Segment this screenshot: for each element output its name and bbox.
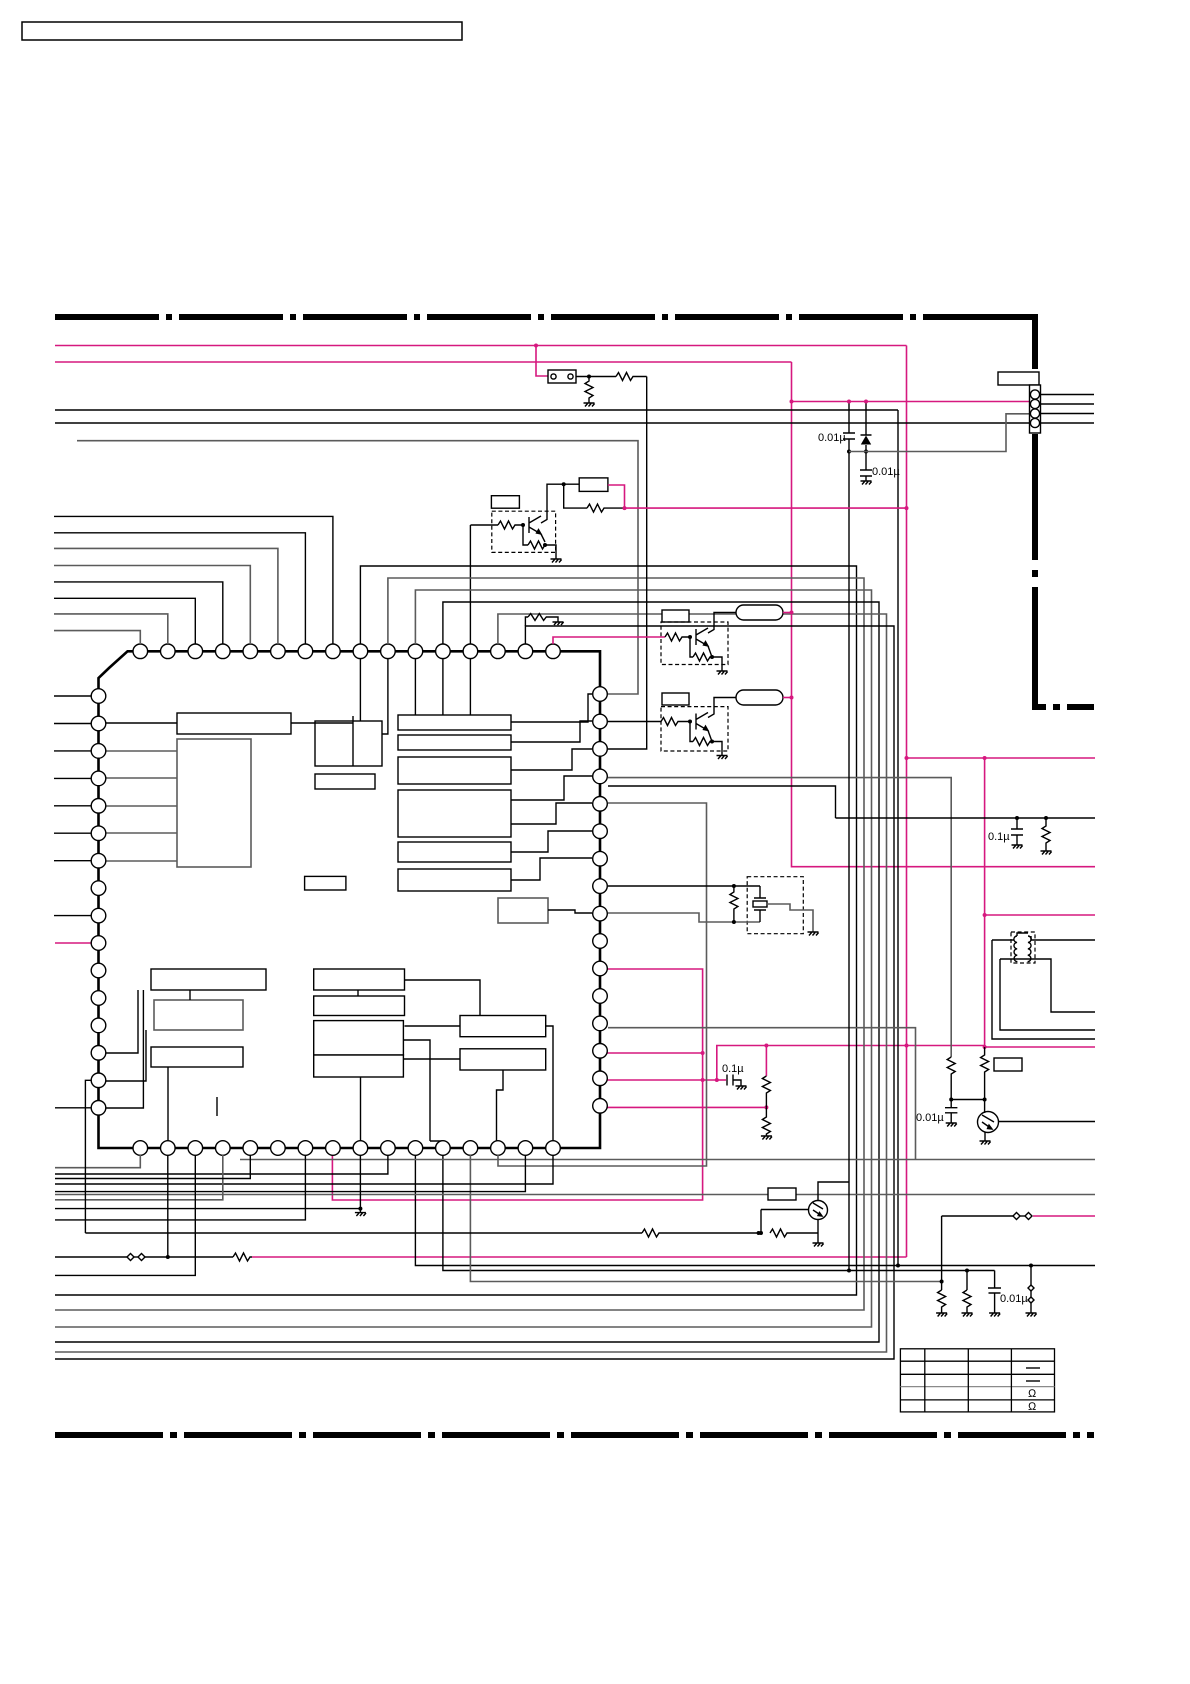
resistor RX vertical [730, 886, 738, 922]
transistor Q4 mid label box [768, 1188, 796, 1200]
connector CN pin3 [1030, 409, 1039, 418]
wire right pin2 to cluster3 base [608, 721, 661, 723]
resistor R-top small with ground [525, 617, 528, 626]
wire pin15T to bus [55, 626, 894, 1359]
wire rectS to rectU [403, 1058, 460, 1060]
wire rectR to rectT [405, 1025, 461, 1027]
wire diamond rail y1257 left [55, 1256, 127, 1258]
node M1-drop junction [534, 344, 538, 348]
wire CN pin3 out [1040, 413, 1094, 415]
node trunk y508 [905, 506, 909, 510]
svg-text:0.01µ: 0.01µ [872, 466, 900, 478]
ground G-Rm2 [761, 1136, 772, 1140]
block Q1 out box [579, 478, 608, 492]
block rect F [398, 735, 511, 750]
wire diamond rail to resistor [145, 1256, 233, 1258]
block rect L [498, 898, 548, 923]
diode D1 [861, 402, 872, 471]
wire magenta y1046 crossbar [717, 1046, 985, 1081]
wire Q1 emitter to ground [541, 534, 556, 559]
node magenta 1080b [715, 1078, 719, 1082]
node magenta 1080a [701, 1078, 705, 1082]
wire left pin16 lead [55, 1107, 91, 1109]
wire fan8 to top pin1 [54, 631, 140, 644]
wire pin3B lead y1275.4 [55, 1155, 195, 1275]
block rect H [398, 790, 511, 837]
wire pin10T into IC [382, 658, 388, 734]
connector diamond d1 [127, 1254, 134, 1261]
connector CN right label box [998, 372, 1039, 385]
block rect G [398, 757, 511, 784]
wire CN pin2 out [1040, 403, 1094, 405]
wire rectH2 to right pin5 [511, 803, 592, 824]
wire crystal out [766, 904, 813, 932]
wire fan5 to top pin4 [54, 582, 223, 644]
block rect C [315, 721, 382, 766]
wire R5-R6 tie [951, 1099, 984, 1101]
node crystal bottom left [732, 920, 736, 924]
transformer T1 dashed box [1011, 932, 1035, 963]
wire gray pin5R loop to pin14B [498, 803, 707, 1166]
svg-text:0.01µ: 0.01µ [916, 1112, 944, 1124]
crystal X1 symbol plates [754, 886, 766, 922]
transistor Q5 circle [978, 1112, 999, 1133]
node y1233 x758 [757, 1231, 761, 1235]
wire y1233 rail [85, 1232, 642, 1234]
block R6 label box [994, 1058, 1022, 1071]
ground G-pin9b hatch [355, 1213, 366, 1216]
wire Q1 base lead [471, 524, 499, 526]
wire pin11T into IC [414, 658, 416, 715]
resistor R1 vertical [585, 377, 593, 401]
bottom dash-dot thick border [55, 1432, 1094, 1438]
resistor R-m1 at x766 [762, 1076, 770, 1107]
wire pin15L staircase to rectO [106, 1030, 146, 1081]
capacitor C4 0.1u [1011, 818, 1023, 845]
node C1 top [847, 400, 851, 404]
right thick border vertical [1032, 314, 1038, 369]
ground G-Q3 [717, 756, 728, 760]
wire Q2 emitter R [690, 637, 693, 657]
ground G-R1 hatch [584, 403, 595, 407]
wire diamond rail mid [134, 1256, 138, 1258]
wire rectJ to right pin7 [511, 858, 592, 880]
wire rectH to right pin4 [511, 776, 592, 800]
connector diamond d6 [1028, 1297, 1034, 1303]
wire magenta y508 to trunk [625, 507, 907, 509]
svg-text:Ω: Ω [1028, 1388, 1037, 1400]
ground G-X1 [808, 932, 819, 936]
wire M2 magenta second rail [55, 361, 792, 363]
ground G-C6 [989, 1313, 1000, 1317]
wire pin2B drop to diamond rail [167, 1155, 169, 1257]
resistor R-Q4 [770, 1229, 818, 1237]
wire pin16B lead y1184 [55, 1155, 553, 1184]
resistor R5 at x951 [947, 1057, 955, 1100]
wire d3-d4 [1020, 1215, 1025, 1217]
transistor cluster Q2 dashed box [661, 622, 728, 665]
wire left pin7 lead [54, 860, 91, 862]
wire y1216 rail [942, 1215, 1013, 1217]
IC left pin column [91, 689, 106, 1115]
block rect T [460, 1016, 546, 1037]
node magenta 1107 [764, 1105, 768, 1109]
wire node rail y818 [836, 817, 1096, 819]
wire rectS to bottom pin9 via x360 [360, 1077, 362, 1141]
block rect U [460, 1049, 546, 1070]
ground G-d6 [1026, 1313, 1037, 1317]
node trunk y758 [905, 756, 909, 760]
node magenta x792 T [790, 400, 794, 404]
wire rectG to right pin3 [511, 749, 592, 770]
block rect R [314, 1021, 404, 1055]
wire magenta vertical x984.6 [984, 758, 986, 1047]
transformer T1 right coil [1028, 936, 1032, 962]
wire gray full rail y1194.5 [55, 1194, 1095, 1196]
wire x967 drop [966, 1271, 968, 1291]
block rect B [177, 739, 251, 867]
resistor R6 at x985 [981, 1047, 989, 1100]
wire fan4 to top pin5 [54, 566, 250, 645]
wire magenta diamond line y1216 [1033, 1215, 1095, 1217]
connector diamond d2 [138, 1254, 145, 1261]
wire rectN bottom [357, 990, 359, 996]
wire magenta right rail y758 [907, 757, 1096, 759]
wire Q1 feedback drop [564, 484, 587, 508]
block rect P [151, 1047, 243, 1067]
node Q3 emitter [710, 740, 714, 744]
wire left pin2 lead [54, 723, 91, 725]
wire magenta C3 left join [717, 1079, 726, 1081]
node D1 top [864, 400, 868, 404]
wire gray D1 node to connector pin3 [849, 414, 1030, 452]
wire left pin6 lead [54, 832, 91, 834]
block rect Q [314, 996, 405, 1016]
resistor Q2 base R [665, 633, 690, 641]
wire pin14L staircase to rectM [106, 990, 138, 1053]
wire rectM to rectO stub [189, 990, 191, 1000]
node pill2 stub [790, 696, 794, 700]
wire rectI to right pin6 [511, 831, 592, 852]
transistor cluster Q3 label box [662, 693, 689, 705]
wire magenta bottom drop from pin8b [332, 1155, 340, 1200]
wire rectU to bottom pin14 [497, 1070, 504, 1141]
ground G-C2 [861, 481, 872, 485]
wire bottom rail 1281 gray from pin13b [470, 1155, 941, 1282]
wire magenta pill1 stub [783, 612, 792, 614]
ground G-Q1 [551, 559, 562, 563]
wire magenta vertical x792 [792, 362, 1096, 867]
ground G-R9 [962, 1313, 973, 1317]
table dash row3 [1026, 1380, 1040, 1382]
wire pin5B lead y1185 [55, 1155, 250, 1179]
wire R2 corner down to right pin2 [608, 377, 647, 750]
node y818 res [1044, 816, 1048, 820]
ground G-Q5 [980, 1141, 991, 1145]
block rect K [305, 876, 346, 890]
node D1 bottom [864, 450, 868, 454]
transistor Q2 symbol [696, 628, 708, 646]
ground G-Q2 [717, 671, 728, 675]
wire magenta to connector pin2 [792, 401, 1031, 403]
wire Q3 collector to pill2 [708, 698, 736, 718]
wire magenta right pin11 to trunk x702.6 [340, 969, 703, 1200]
wire pin7L to rect B [106, 860, 177, 862]
wire Q3 emitter join to ground [708, 731, 722, 756]
wire magenta drop to 2pin connector [536, 346, 548, 377]
wire pin15B lead y1191.6 [55, 1155, 525, 1192]
connector CN pin2 [1030, 399, 1039, 408]
wire bottom rail 1270 from pin12b to cap [443, 1155, 995, 1271]
svg-text:0.01µ: 0.01µ [818, 432, 846, 444]
transistor Q1 symbol [529, 516, 541, 534]
wire x898 drop to bottom rail 1266 [897, 410, 899, 1266]
svg-text:0.01µ: 0.01µ [1000, 1293, 1028, 1305]
wire rectA to rectC riser [291, 716, 353, 766]
resistor Q1 base R [498, 521, 523, 529]
block rect O [154, 1000, 243, 1030]
node Q1 base [521, 523, 525, 527]
wire Q3 emitter R [690, 722, 693, 742]
capacitor C1 0.01u at x849 [843, 402, 855, 453]
node x849 y452 [847, 450, 851, 454]
wire rectE to right pin1 [511, 694, 592, 722]
wire black rail y410 [55, 409, 898, 411]
wire fan6 to top pin3 [54, 598, 195, 644]
connector CN pin4 [1030, 418, 1039, 427]
resistor R-top zigzag [528, 614, 552, 621]
transistor Q3 symbol [696, 713, 708, 731]
label tick inside IC [216, 1097, 218, 1116]
wire pin2L to rect A [106, 722, 177, 724]
resistor Q2 emitter [693, 653, 712, 661]
transistor Q4 circle [809, 1201, 828, 1220]
resistor R-1233 [642, 1229, 759, 1237]
wire magenta Q1 box out [608, 485, 625, 508]
node Q2 emitter [710, 655, 714, 659]
table parts list [900, 1349, 1054, 1412]
wire gray pin13R to x915.5 [608, 1028, 916, 1160]
ground G-C3 [736, 1086, 747, 1090]
wire rectT to pin16b [546, 1026, 553, 1141]
wire Q4 base left [761, 1209, 809, 1211]
wire magenta trunk vertical [906, 346, 908, 1258]
connector diamond d3 [1013, 1213, 1020, 1220]
transistor cluster Q3 dashed box [661, 707, 728, 751]
connector J1 2-pin box [548, 370, 576, 383]
node magenta x766 top [764, 1044, 768, 1048]
wire Q5 collector right [999, 1121, 1096, 1123]
wire pin13T riser to cluster Q1 [469, 525, 471, 715]
node x951 y1099 [949, 1098, 953, 1102]
wire pin4B gray lead y1199.8 [55, 1155, 223, 1200]
wire left pin5 lead [54, 805, 91, 807]
transistor cluster Q1 dashed box [492, 511, 556, 552]
wire fan3 to top pin6 [54, 548, 278, 644]
ground G-C4 [1012, 845, 1023, 849]
wire left pin4 lead [54, 777, 91, 779]
wire x1031 drop [1030, 1266, 1032, 1286]
bracket B2 [1000, 959, 1095, 1030]
ground G-top hatch [553, 622, 564, 625]
connector CN pin1 [1030, 390, 1039, 399]
IC right pin column [593, 687, 608, 1113]
wire magenta right pin16 [606, 1106, 766, 1108]
transformer T1 left coil [1014, 936, 1018, 962]
wire Q2 collector to pill1 [708, 613, 736, 634]
wire pin12T into IC [442, 658, 444, 715]
node magenta 906 y1046 [905, 1044, 909, 1048]
node Q2 base [688, 635, 692, 639]
wire rectL to right pin9 [548, 910, 592, 913]
wire Q1 emitter R [523, 525, 528, 545]
wire black rail y423 to connector pin4 [55, 422, 1030, 424]
wire Q4 emitter down [817, 1220, 819, 1244]
node x967 [965, 1269, 969, 1273]
connector diamond d5 [1028, 1285, 1034, 1291]
resistor R-m2 below [762, 1107, 770, 1136]
wire gray y440 to right pin1 [77, 441, 638, 694]
wire magenta bottom rail y1257 [252, 1256, 907, 1258]
top dash-dot thick border [55, 314, 1028, 320]
node Q1 out [562, 482, 566, 486]
IC U1 outline [99, 651, 601, 1148]
svg-text:0.1µ: 0.1µ [722, 1063, 744, 1075]
wire pin7B lead y1219.9 [55, 1155, 305, 1220]
wire bottom rail 1266 from pin11b [415, 1155, 1095, 1266]
wire pin9T to bus [55, 566, 857, 1295]
block rect D [315, 774, 375, 789]
resistor R9 at x967 [963, 1290, 971, 1313]
ground G-R7 [1041, 851, 1052, 855]
wire T1 primary top [992, 933, 1095, 940]
wire d5-d6 [1030, 1291, 1032, 1297]
resistor R8 at x941 [938, 1290, 946, 1313]
wire CN pin4 out [1040, 422, 1094, 424]
wire Q4 collector up [818, 1182, 849, 1201]
block rect S [314, 1055, 404, 1077]
node R6 y1099 [983, 1098, 987, 1102]
wire Q4 base drop [760, 1210, 762, 1234]
wire rectF to right pin2 [511, 721, 592, 742]
wire pin16L staircase to rectM [106, 990, 143, 1108]
wire M1 magenta top rail [55, 345, 907, 347]
wire magenta right pin15 [606, 1079, 717, 1081]
pill P2 [736, 690, 783, 705]
wire rectP to bottom pin2 [167, 1067, 169, 1141]
wire pin9R to crystal bottom [608, 913, 760, 922]
node y818 cap [1015, 816, 1019, 820]
node Q1 emitter join [543, 543, 547, 547]
connector J1 pin b [568, 374, 573, 379]
pill P1 [736, 605, 783, 620]
node rail1266 x1031 [1029, 1264, 1033, 1268]
wire Q1 collector up [541, 484, 579, 523]
node Q1 magenta join [623, 506, 627, 510]
wire pin8R to crystal top [608, 885, 760, 887]
ground G-pin9b [359, 1209, 361, 1213]
svg-text:Ω: Ω [1028, 1401, 1037, 1413]
resistor R-1257 [233, 1253, 252, 1261]
wire fan1 to top pin8 [54, 516, 333, 644]
wire fan7 to top pin2 [54, 614, 168, 644]
wire pin1B gray lead [55, 1155, 140, 1168]
bracket B1 outer [992, 940, 1095, 1039]
title box [22, 22, 462, 40]
resistor Q3 base R [661, 718, 690, 726]
crystal X1 body [753, 901, 767, 907]
transistor Q5 internals [982, 1100, 994, 1130]
node magenta 1053 [701, 1051, 705, 1055]
wire pin4L to rect B [106, 777, 177, 779]
crystal X1 dashed box [747, 877, 803, 934]
wire left pin1 lead [54, 695, 91, 697]
wire left pin9 lead [54, 915, 91, 917]
transistor Q4 internals [813, 1203, 823, 1216]
node crystal top left [732, 884, 736, 888]
connector J1 pin a [551, 374, 556, 379]
node Q4 base drop [759, 1231, 763, 1235]
ground G-R8 [936, 1313, 947, 1317]
block rect J [398, 869, 511, 891]
wire fan2 to top pin7 [54, 533, 305, 644]
wire pin11T to bus [55, 590, 872, 1327]
node J1 out [587, 375, 591, 379]
wire d6 to ground [1030, 1303, 1032, 1313]
block rect N [314, 969, 405, 990]
wire pin10B lead y1174 [55, 1155, 388, 1174]
wire left pin15 jog down [85, 1080, 91, 1233]
resistor Q3 emitter [693, 738, 712, 746]
wire x849 long drop [848, 452, 850, 1271]
node pin9b ground [358, 1207, 362, 1211]
transistor cluster Q1 label box [491, 496, 519, 509]
wire pin3L to rect B [106, 750, 177, 752]
wire gray pin4R to x951 [608, 778, 951, 1057]
capacitor C6 0.01u at x994 [988, 1271, 1001, 1314]
node rail1281 end [940, 1280, 944, 1284]
connector CN body [1030, 385, 1041, 433]
wire magenta y915 to edge [985, 914, 1095, 916]
resistor Q1 feedback [587, 504, 625, 512]
capacitor C3 0.1u horizontal [727, 1075, 741, 1087]
right thick border tail [1032, 434, 1038, 710]
ground G-Q4 [813, 1243, 824, 1247]
wire x941 drop [941, 1216, 943, 1290]
node magenta x984.6 top [983, 756, 987, 760]
block rect I [398, 842, 511, 862]
wire magenta pill2 stub [783, 697, 792, 699]
wire Q5 emitter ground [984, 1132, 986, 1141]
wire pin9T into IC [359, 658, 361, 721]
wire magenta left pin10 [55, 942, 91, 944]
IC bottom pin row [133, 1141, 560, 1156]
wire pin6L to rect B [106, 832, 177, 834]
wire magenta right pin14 [606, 1052, 703, 1054]
wire pin12T to bus [55, 602, 879, 1342]
transistor cluster Q2 label box [662, 610, 689, 622]
resistor R7 [1042, 818, 1050, 851]
ground G-C5 [946, 1123, 957, 1127]
wire left pin3 lead [54, 750, 91, 752]
node diamond rail x168 [166, 1255, 170, 1259]
wire black y786 to node rail [608, 786, 836, 818]
node Q3 base [688, 720, 692, 724]
capacitor C5 0.01u [945, 1100, 957, 1124]
wire rectN to rectT [405, 980, 481, 1016]
block rect E [398, 715, 511, 730]
wire magenta y1047 to edge [985, 1046, 1095, 1048]
